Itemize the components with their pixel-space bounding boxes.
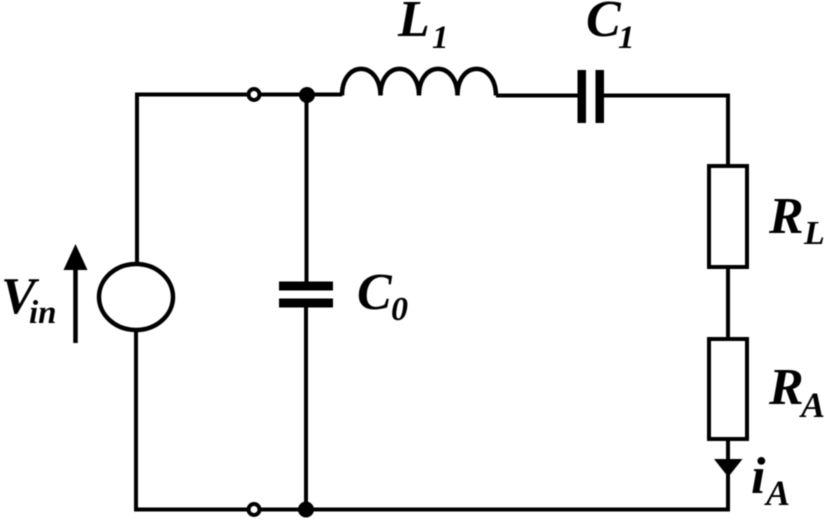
svg-text:in: in	[29, 295, 57, 331]
wire right vertical upper segment	[726, 94, 730, 167]
wire top horizontal left segment	[137, 93, 342, 97]
wire left vertical lower segment	[134, 330, 138, 510]
wire top horizontal right segment (C1 to right corner)	[604, 94, 730, 98]
source V_in circle	[99, 264, 173, 330]
svg-text:0: 0	[391, 291, 408, 328]
capacitor C1	[496, 70, 604, 123]
svg-text:A: A	[764, 473, 790, 513]
svg-text:L: L	[397, 0, 430, 48]
wire RA to bottom corner	[726, 438, 730, 512]
wire between RL and RA	[726, 267, 730, 339]
wire bottom horizontal	[134, 508, 730, 512]
resistor RL	[709, 166, 747, 267]
node junction dot top	[299, 87, 315, 103]
wire middle vertical branch lower (C0 to bottom node)	[304, 305, 308, 510]
svg-text:C: C	[357, 264, 393, 321]
svg-text:R: R	[768, 359, 804, 416]
capacitor C0	[279, 282, 333, 308]
node terminal open circle bottom	[249, 504, 260, 515]
V_in reference arrow	[64, 244, 88, 343]
svg-text:R: R	[768, 188, 804, 245]
wire middle vertical branch upper (node to C0)	[305, 95, 309, 284]
svg-text:1: 1	[618, 20, 635, 56]
node terminal open circle top	[249, 89, 260, 100]
svg-text:C: C	[586, 0, 622, 48]
node junction dot bottom	[298, 502, 314, 518]
svg-text:L: L	[803, 215, 825, 252]
resistor RA	[709, 339, 747, 439]
svg-text:1: 1	[432, 20, 449, 56]
svg-text:i: i	[751, 448, 766, 505]
svg-text:A: A	[799, 385, 825, 425]
inductor L1	[342, 69, 496, 96]
current arrow iA	[714, 459, 743, 477]
wire left vertical branch	[135, 93, 139, 265]
